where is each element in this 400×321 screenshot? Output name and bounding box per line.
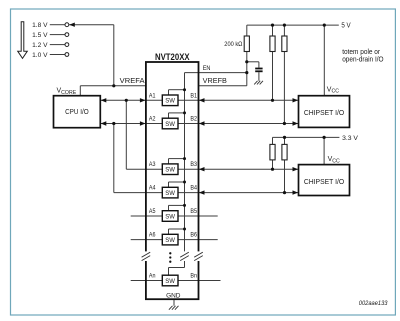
svg-text:SW: SW bbox=[165, 167, 175, 174]
svg-text:B2: B2 bbox=[190, 116, 197, 123]
svg-text:SW: SW bbox=[165, 278, 175, 285]
svg-text:An: An bbox=[149, 273, 156, 280]
svg-text:1.8 V: 1.8 V bbox=[32, 22, 48, 29]
svg-text:VREFB: VREFB bbox=[203, 76, 227, 85]
svg-text:B6: B6 bbox=[190, 232, 197, 239]
svg-text:SW: SW bbox=[165, 98, 175, 105]
svg-text:B4: B4 bbox=[190, 185, 197, 192]
svg-text:A5: A5 bbox=[149, 208, 156, 215]
svg-text:1.2 V: 1.2 V bbox=[32, 42, 48, 49]
svg-text:GND: GND bbox=[166, 292, 180, 299]
svg-text:NVT20XX: NVT20XX bbox=[155, 52, 190, 62]
svg-text:SW: SW bbox=[165, 190, 175, 197]
svg-text:CPU I/O: CPU I/O bbox=[65, 107, 89, 116]
svg-text:A4: A4 bbox=[149, 185, 156, 192]
svg-text:SW: SW bbox=[165, 121, 175, 128]
svg-text:VREFA: VREFA bbox=[120, 76, 145, 85]
svg-text:3.3 V: 3.3 V bbox=[342, 135, 358, 142]
svg-text:1.0 V: 1.0 V bbox=[32, 52, 48, 59]
svg-text:SW: SW bbox=[165, 237, 175, 244]
svg-text:002aae133: 002aae133 bbox=[359, 300, 388, 307]
svg-text:B3: B3 bbox=[190, 161, 197, 168]
svg-text:CHIPSET I/O: CHIPSET I/O bbox=[304, 108, 345, 117]
svg-text:200 kΩ: 200 kΩ bbox=[224, 41, 242, 48]
svg-text:CHIPSET I/O: CHIPSET I/O bbox=[304, 177, 345, 186]
svg-text:SW: SW bbox=[165, 213, 175, 220]
svg-text:A3: A3 bbox=[149, 161, 156, 168]
svg-text:5 V: 5 V bbox=[341, 23, 351, 30]
svg-text:A1: A1 bbox=[149, 92, 156, 99]
svg-text:A2: A2 bbox=[149, 116, 156, 123]
svg-text:1.5 V: 1.5 V bbox=[32, 32, 48, 39]
svg-text:B1: B1 bbox=[190, 92, 197, 99]
svg-text:B5: B5 bbox=[190, 208, 197, 215]
svg-text:EN: EN bbox=[203, 65, 211, 72]
svg-text:A6: A6 bbox=[149, 232, 156, 239]
svg-text:open-drain I/O: open-drain I/O bbox=[342, 55, 384, 64]
svg-text:Bn: Bn bbox=[190, 273, 197, 280]
